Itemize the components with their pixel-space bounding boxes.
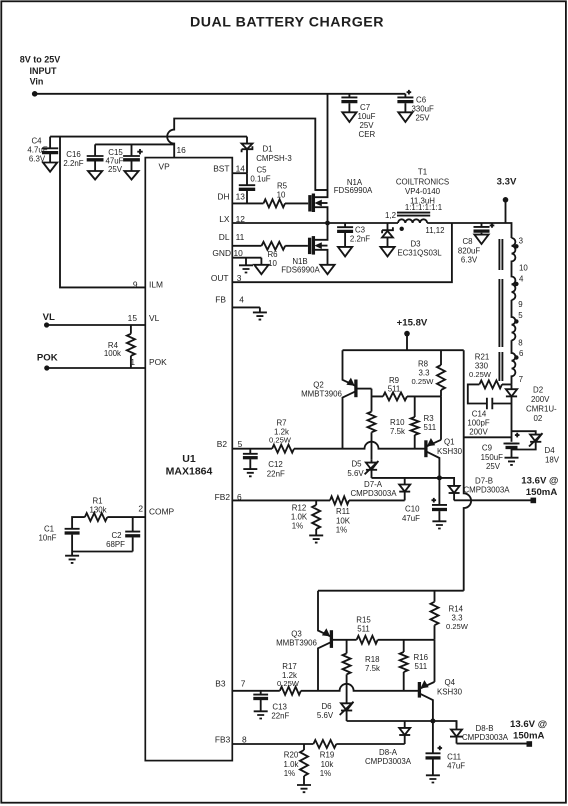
capacitor C16	[87, 144, 104, 156]
svg-text:R15: R15	[356, 615, 371, 624]
capacitor C13 22nF	[253, 691, 268, 695]
svg-text:R17: R17	[282, 662, 296, 671]
svg-text:R19: R19	[320, 751, 335, 760]
wire FB2 output line	[232, 499, 531, 501]
capacitor C8 820uF	[474, 223, 490, 227]
svg-text:KSH30: KSH30	[437, 688, 463, 697]
ground C10 bar	[432, 521, 446, 528]
svg-text:330uF: 330uF	[412, 105, 435, 114]
transistor Q1 KSH30	[426, 437, 463, 479]
capacitor C6 330uF	[397, 94, 413, 98]
svg-text:CMPD3003A: CMPD3003A	[463, 485, 510, 494]
svg-text:D5: D5	[351, 460, 362, 469]
ground C11 bar	[426, 775, 440, 782]
transistor Q3 MMBT3906 pnp	[276, 591, 331, 691]
svg-text:B3: B3	[215, 678, 226, 688]
svg-text:9: 9	[518, 300, 523, 309]
svg-text:200V: 200V	[469, 427, 488, 436]
wire lower rail	[318, 590, 464, 592]
node VL terminal dot	[44, 322, 49, 327]
svg-text:Q3: Q3	[291, 630, 302, 639]
ground GND pin bar	[239, 258, 253, 273]
svg-text:820uF: 820uF	[458, 246, 481, 255]
svg-text:ILM: ILM	[149, 280, 163, 290]
wire Vin drop to N1A drain	[327, 94, 329, 190]
svg-text:D2: D2	[533, 386, 543, 395]
diode D7-B CMPD3003A	[449, 486, 460, 493]
svg-text:1: 1	[130, 357, 135, 367]
svg-text:5.6V: 5.6V	[317, 711, 334, 720]
svg-text:511: 511	[424, 423, 437, 432]
transformer T1 primary winding	[398, 219, 427, 223]
svg-text:68PF: 68PF	[106, 540, 125, 549]
svg-text:0.25W: 0.25W	[446, 622, 469, 631]
wire rail 15.8V to C9	[464, 436, 512, 438]
wire Vin rail	[35, 93, 406, 95]
wire VP riser with hop over cap rail	[167, 119, 327, 191]
wire Q3 base line	[331, 639, 356, 641]
ground C8 arrow	[474, 235, 488, 244]
svg-text:1%: 1%	[320, 769, 331, 778]
svg-text:VP: VP	[159, 161, 171, 171]
svg-text:25V: 25V	[360, 121, 375, 130]
svg-text:6.3V: 6.3V	[29, 154, 46, 163]
svg-text:T1: T1	[418, 168, 427, 177]
diode D4 zener 18V	[512, 431, 536, 434]
svg-text:KSH30: KSH30	[437, 447, 463, 456]
svg-text:200V: 200V	[531, 395, 550, 404]
capacitor C14 100pF 200V	[487, 398, 512, 409]
svg-text:Q1: Q1	[444, 437, 455, 446]
svg-text:FDS6990A: FDS6990A	[334, 186, 373, 195]
transformer T1 secondary winding section 4	[512, 340, 516, 384]
wire B3 line with hop	[232, 684, 418, 691]
svg-text:130k: 130k	[89, 505, 106, 514]
ground C12 bar	[243, 469, 257, 476]
node 3.3V dot and stub	[503, 197, 509, 203]
wire LX line	[232, 222, 398, 224]
wire Q2 base to R9 R10	[371, 389, 373, 412]
resistor R18 7.5k	[346, 640, 348, 654]
svg-text:25V: 25V	[486, 462, 501, 471]
svg-text:D8-B: D8-B	[476, 724, 494, 733]
resistor R16 511	[403, 640, 405, 691]
svg-text:14: 14	[236, 163, 246, 173]
svg-text:D7-B: D7-B	[475, 476, 493, 485]
resistor R11 10K 1%	[330, 496, 349, 504]
resistor R20 1.0k 1%	[303, 744, 305, 785]
svg-text:+15.8V: +15.8V	[397, 317, 428, 328]
svg-text:C14: C14	[472, 409, 487, 418]
svg-text:OUT: OUT	[211, 273, 229, 283]
svg-text:C2: C2	[111, 531, 121, 540]
svg-text:3.3V: 3.3V	[497, 176, 517, 187]
svg-text:R7: R7	[276, 418, 286, 427]
transistor N1B FDS6990A mosfet	[281, 223, 327, 274]
svg-text:R11: R11	[336, 507, 350, 516]
svg-text:7: 7	[519, 375, 523, 384]
ground N1B source arrow	[320, 265, 334, 274]
svg-text:R14: R14	[449, 605, 464, 614]
svg-text:COMP: COMP	[149, 507, 175, 517]
capacitor C11 47uF	[426, 721, 441, 753]
svg-text:8: 8	[518, 338, 523, 347]
svg-text:1.0k: 1.0k	[284, 760, 299, 769]
svg-text:R12: R12	[292, 503, 306, 512]
svg-text:16: 16	[177, 145, 187, 155]
resistor R19 10k 1%	[313, 740, 336, 748]
resistor R4 100k	[130, 325, 132, 368]
diode D3 EC31QS03L schottky	[387, 223, 389, 230]
svg-text:C16: C16	[66, 150, 81, 159]
svg-text:DH: DH	[217, 192, 229, 202]
svg-text:511: 511	[357, 624, 370, 633]
diode D2 200V CMR1U-02	[511, 384, 513, 389]
svg-text:R21: R21	[475, 353, 489, 362]
svg-text:47uF: 47uF	[447, 762, 465, 771]
svg-text:8V to 25V: 8V to 25V	[20, 55, 61, 65]
svg-text:5: 5	[518, 311, 523, 320]
wire C1 C2 bottom	[72, 551, 133, 553]
capacitor C1 10nF	[65, 528, 80, 530]
svg-text:10: 10	[519, 264, 528, 273]
node phase dot sec3	[514, 319, 518, 323]
svg-text:R3: R3	[424, 414, 435, 423]
svg-text:1.0K: 1.0K	[291, 513, 308, 522]
svg-text:3: 3	[519, 237, 524, 246]
svg-text:CMR1U-: CMR1U-	[526, 405, 557, 414]
svg-text:CMPSH-3: CMPSH-3	[256, 154, 292, 163]
svg-text:C7: C7	[360, 103, 370, 112]
svg-text:4.7uF: 4.7uF	[27, 145, 47, 154]
svg-text:D8-A: D8-A	[379, 748, 398, 757]
ground R12 bar	[309, 535, 323, 542]
ground C6 arrow	[398, 112, 412, 122]
svg-text:150mA: 150mA	[526, 487, 558, 498]
svg-text:22nF: 22nF	[267, 469, 285, 478]
svg-text:C3: C3	[355, 226, 366, 235]
svg-text:10: 10	[234, 248, 244, 258]
svg-text:R18: R18	[365, 655, 380, 664]
wire VP bypass rail C16 C15	[95, 143, 174, 145]
svg-text:VL: VL	[149, 313, 160, 323]
svg-text:0.25W: 0.25W	[412, 377, 435, 386]
diode D1 CMPSH-3 schottky	[246, 137, 248, 144]
capacitor C10 47uF	[432, 478, 447, 505]
svg-text:5: 5	[238, 439, 243, 449]
svg-text:C5: C5	[256, 166, 267, 175]
svg-text:FB2: FB2	[215, 492, 231, 502]
node T1 primary phase dot	[400, 227, 404, 231]
svg-text:4: 4	[239, 294, 244, 304]
svg-text:5.6V: 5.6V	[347, 469, 364, 478]
svg-text:GND: GND	[212, 248, 231, 258]
wire DH gate	[285, 202, 308, 204]
ground R20 bar	[297, 785, 311, 792]
svg-text:11: 11	[236, 232, 245, 242]
resistor R9 511	[372, 395, 442, 397]
wire LX to secondary	[427, 223, 511, 238]
svg-text:FDS6990A: FDS6990A	[281, 265, 320, 274]
capacitor C4	[42, 137, 58, 149]
svg-text:18V: 18V	[545, 455, 560, 464]
svg-text:6: 6	[519, 349, 524, 358]
wire ILM drop from cap rail	[60, 137, 145, 288]
svg-text:D4: D4	[545, 446, 556, 455]
svg-text:0.1uF: 0.1uF	[250, 174, 270, 183]
svg-text:CMPD3003A: CMPD3003A	[365, 757, 412, 766]
resistor R10 7.5k	[368, 412, 376, 433]
transistor N1A FDS6990A mosfet	[310, 178, 373, 223]
svg-text:6.3V: 6.3V	[461, 255, 478, 264]
wire cap rail C4 to D1	[50, 136, 247, 138]
svg-text:C9: C9	[482, 444, 493, 453]
svg-text:150mA: 150mA	[513, 730, 545, 741]
svg-text:7.5k: 7.5k	[365, 664, 380, 673]
transformer T1 secondary winding section 2	[512, 264, 516, 300]
wire supply vertical with hop over output line	[464, 350, 471, 591]
svg-text:R6: R6	[267, 250, 278, 259]
svg-text:1%: 1%	[336, 526, 347, 535]
ground C9 bar	[505, 458, 519, 465]
node Vin terminal dot	[32, 91, 38, 97]
resistor R7 1.2k 0.25W	[272, 445, 294, 453]
svg-text:R10: R10	[390, 418, 405, 427]
svg-text:R1: R1	[92, 496, 102, 505]
svg-text:D7-A: D7-A	[364, 480, 383, 489]
capacitor C3 2.2nF	[337, 223, 353, 227]
svg-text:C8: C8	[462, 237, 473, 246]
capacitor C2 68PF	[125, 517, 140, 532]
svg-text:MMBT3906: MMBT3906	[301, 390, 342, 399]
svg-text:9: 9	[133, 280, 138, 290]
transformer T1 secondary winding section 1	[512, 238, 516, 264]
node Q1 emitter junction dot	[437, 475, 442, 480]
capacitor C15	[123, 144, 140, 156]
svg-text:150uF: 150uF	[481, 453, 504, 462]
svg-text:B2: B2	[217, 439, 228, 449]
wire B2 line with hop	[232, 442, 424, 449]
resistor R12 1.0K 1%	[315, 500, 317, 535]
svg-text:C10: C10	[405, 505, 420, 514]
pin 1 POK wire	[47, 367, 146, 369]
pin 2 COMP wire	[107, 516, 145, 518]
diode D5 zener 5.6V	[371, 460, 373, 463]
wire D5 Q1 emitter line	[372, 478, 455, 486]
capacitor C5 0.1uF	[239, 173, 255, 185]
svg-text:POK: POK	[37, 352, 58, 363]
ground C1 bar	[65, 552, 79, 563]
svg-text:D3: D3	[410, 240, 421, 249]
resistor R15 511	[357, 636, 378, 644]
resistor R1 130k	[85, 513, 108, 521]
diode D7-A CMPD3003A	[404, 478, 406, 485]
wire R8 bottom to Q1 collector riser	[440, 396, 442, 439]
svg-text:100k: 100k	[104, 349, 121, 358]
svg-text:13: 13	[236, 192, 246, 202]
wire upper rail	[343, 349, 464, 351]
ground GND pin arrow	[260, 258, 262, 265]
wire R14 bottom to Q4 collector riser	[434, 640, 436, 682]
svg-text:511: 511	[388, 385, 401, 394]
wire FB3 output line	[232, 743, 527, 745]
svg-text:BST: BST	[213, 163, 229, 173]
ground D3 arrow	[380, 247, 394, 257]
transformer T1 primary core bars	[397, 213, 430, 216]
IC U1 MAX1864 box	[145, 158, 232, 761]
wire OUT to 3.3V node	[232, 223, 452, 282]
node Q4 emitter junction dot	[430, 719, 435, 724]
svg-text:1,2: 1,2	[385, 211, 396, 220]
svg-text:4: 4	[519, 274, 524, 283]
wire DL gate	[285, 245, 308, 247]
resistor R8 3.3 0.25W	[440, 350, 442, 396]
resistor R6 10	[262, 242, 286, 250]
node +15.8V dot	[404, 331, 410, 337]
diode D8-B CMPD3003A	[456, 721, 458, 730]
svg-text:C6: C6	[416, 96, 427, 105]
svg-text:10: 10	[268, 259, 277, 268]
svg-text:47uF: 47uF	[402, 514, 420, 523]
node phase dot sec4	[514, 355, 518, 359]
pin 15 VL wire	[47, 324, 146, 326]
svg-text:10nF: 10nF	[39, 534, 57, 543]
svg-text:DUAL BATTERY CHARGER: DUAL BATTERY CHARGER	[190, 14, 384, 30]
transformer T1 secondary core bars	[499, 239, 502, 381]
resistor R14 3.3 0.25W	[434, 591, 436, 640]
svg-text:1:1:1:1:1:1: 1:1:1:1:1:1	[405, 203, 442, 212]
svg-text:2: 2	[138, 504, 143, 514]
capacitor C9 150uF	[506, 443, 518, 445]
svg-text:Q4: Q4	[445, 678, 456, 687]
svg-text:C13: C13	[272, 702, 287, 711]
node output terminal square upper	[531, 498, 537, 504]
svg-text:POK: POK	[149, 357, 167, 367]
svg-text:13.6V @: 13.6V @	[510, 719, 547, 730]
node LX junction dot	[325, 221, 330, 226]
ground C3 arrow	[338, 247, 352, 257]
svg-text:100pF: 100pF	[467, 418, 490, 427]
node phase dot sec1	[514, 244, 518, 248]
diode D8-A CMPD3003A	[404, 721, 406, 728]
svg-text:10K: 10K	[336, 516, 351, 525]
resistor R3 511	[414, 396, 416, 448]
svg-text:10uF: 10uF	[358, 112, 376, 121]
svg-text:2.2nF: 2.2nF	[350, 235, 370, 244]
svg-text:R20: R20	[284, 751, 299, 760]
svg-text:LX: LX	[219, 214, 230, 224]
svg-text:MAX1864: MAX1864	[166, 466, 213, 478]
ground C4 arrow	[43, 163, 57, 172]
capacitor C12 22nF	[243, 449, 258, 454]
svg-text:MMBT3906: MMBT3906	[276, 638, 317, 647]
svg-text:Vin: Vin	[30, 77, 44, 87]
svg-text:R5: R5	[277, 182, 288, 191]
capacitor C7 10uF CER	[341, 94, 357, 98]
svg-text:EC31QS03L: EC31QS03L	[397, 249, 442, 258]
wire D6 Q4 emitter line	[347, 721, 457, 727]
svg-text:25V: 25V	[416, 114, 431, 123]
ground C7 arrow	[342, 112, 356, 122]
diode D6 zener 5.6V	[341, 703, 352, 710]
svg-text:Q2: Q2	[313, 380, 324, 389]
svg-text:FB3: FB3	[215, 734, 231, 744]
svg-text:VL: VL	[43, 312, 55, 323]
svg-text:C12: C12	[268, 460, 282, 469]
svg-text:R16: R16	[414, 653, 429, 662]
ground FB bar	[253, 307, 267, 319]
svg-text:CMPD3003A: CMPD3003A	[350, 489, 397, 498]
svg-text:D6: D6	[321, 702, 332, 711]
svg-text:VP4-0140: VP4-0140	[405, 187, 441, 196]
svg-text:R8: R8	[418, 360, 429, 369]
svg-text:FB: FB	[215, 294, 226, 304]
svg-text:25V: 25V	[108, 165, 123, 174]
svg-text:U1: U1	[182, 453, 196, 465]
svg-text:10k: 10k	[321, 760, 334, 769]
svg-text:15: 15	[128, 313, 138, 323]
svg-text:C1: C1	[44, 524, 54, 533]
svg-text:DL: DL	[219, 232, 230, 242]
resistor R5 10	[264, 199, 286, 207]
svg-text:D1: D1	[262, 144, 272, 153]
transformer T1 secondary winding section 3	[512, 300, 516, 340]
svg-text:1%: 1%	[284, 769, 295, 778]
ground C16 arrow	[88, 171, 102, 180]
svg-text:511: 511	[415, 662, 428, 671]
svg-text:7.5k: 7.5k	[390, 427, 405, 436]
svg-text:0.25W: 0.25W	[269, 436, 292, 445]
wire R1 left to C1	[72, 517, 85, 529]
node POK terminal dot	[44, 365, 49, 370]
svg-text:22nF: 22nF	[271, 712, 289, 721]
svg-text:0.25W: 0.25W	[277, 679, 300, 688]
node output terminal square lower	[527, 741, 533, 747]
ground C13 bar	[254, 711, 268, 718]
svg-text:8: 8	[242, 734, 247, 744]
resistor R17 1.2k 0.25W	[280, 687, 301, 695]
ground C15 arrow	[124, 171, 138, 180]
svg-text:C11: C11	[447, 752, 461, 761]
svg-text:11,12: 11,12	[425, 226, 444, 235]
svg-text:COILTRONICS: COILTRONICS	[396, 178, 449, 187]
svg-text:CER: CER	[359, 130, 376, 139]
svg-text:02: 02	[534, 414, 543, 423]
svg-text:10: 10	[277, 191, 286, 200]
svg-text:CMPD3003A: CMPD3003A	[462, 733, 509, 742]
transistor Q4 KSH30	[419, 678, 462, 721]
svg-text:0.25W: 0.25W	[469, 370, 492, 379]
svg-text:2.2nF: 2.2nF	[63, 159, 83, 168]
svg-text:7: 7	[241, 678, 246, 688]
svg-text:13.6V @: 13.6V @	[521, 476, 558, 487]
node phase dot sec2	[514, 282, 518, 286]
resistor R21 330 0.25W	[468, 384, 512, 403]
svg-text:INPUT: INPUT	[30, 66, 58, 76]
svg-text:1%: 1%	[292, 522, 303, 531]
svg-text:C4: C4	[31, 136, 42, 145]
transistor Q2 MMBT3906 pnp	[301, 350, 371, 449]
